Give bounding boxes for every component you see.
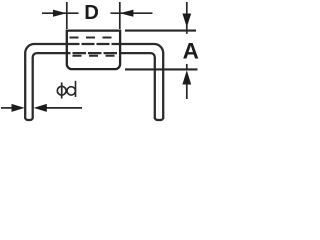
- svg-text:D: D: [84, 2, 99, 24]
- svg-text:A: A: [183, 39, 199, 64]
